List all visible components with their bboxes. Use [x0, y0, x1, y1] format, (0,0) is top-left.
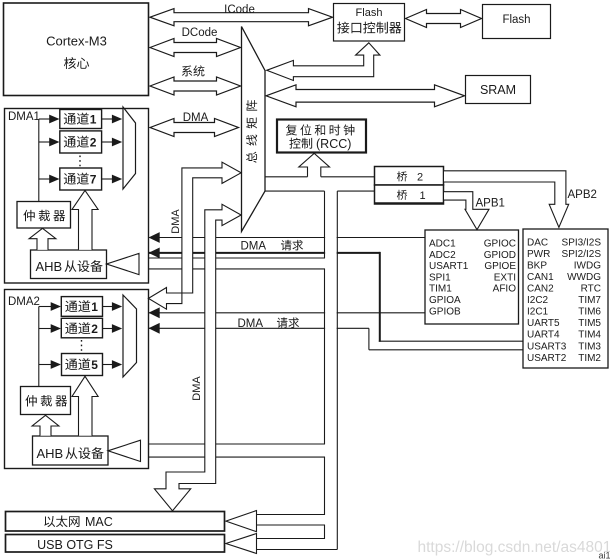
- svg-text:7: 7: [90, 173, 97, 187]
- svg-text:ICode: ICode: [224, 4, 255, 16]
- svg-text:SRAM: SRAM: [480, 83, 516, 97]
- label DMA vertical 1: [170, 209, 182, 234]
- svg-text:TIM6: TIM6: [578, 307, 601, 318]
- svg-text:DCode: DCode: [182, 27, 218, 39]
- DMA2 channel 2 box: [61, 318, 102, 338]
- svg-text:ADC2: ADC2: [429, 250, 456, 261]
- DMA2 controller box: [5, 290, 149, 469]
- svg-text:1: 1: [90, 113, 97, 127]
- svg-text:https://blog.csdn.net/as48013: https://blog.csdn.net/as48013: [418, 539, 610, 556]
- svg-text:DMA: DMA: [238, 318, 264, 330]
- DMA2 channel 5 box: [62, 354, 103, 376]
- label DMA2 arbiter: [25, 395, 67, 407]
- DMA1 channel 2 box: [60, 131, 102, 153]
- APB1 peripherals box: [523, 229, 608, 368]
- svg-text:TIM2: TIM2: [578, 353, 601, 364]
- svg-text:BKP: BKP: [527, 260, 547, 271]
- bent double arrow: bus matrix to Flash interface controller: [267, 43, 380, 81]
- svg-text:2: 2: [417, 172, 423, 184]
- svg-text:2: 2: [90, 136, 97, 150]
- wire AHB white-channel branch to DMA2 AHB slave: [130, 445, 325, 457]
- svg-text:SPI3/I2S: SPI3/I2S: [562, 237, 602, 248]
- label Ethernet MAC: [44, 516, 79, 528]
- DMA1 feeder arrow: [39, 141, 51, 143]
- wire AHB white-channel branch to Ethernet MAC: [257, 515, 326, 524]
- DMA2 mux trapezoid: [123, 295, 137, 377]
- DMA2 AHB slave box: [33, 436, 109, 465]
- svg-text:UART5: UART5: [527, 318, 560, 329]
- wire DMA request line 3 (APB2 periph to DMA2): [149, 312, 426, 314]
- DMA request arrowhead 2: [149, 248, 160, 259]
- label system bus: [182, 65, 205, 76]
- svg-text:DMA: DMA: [170, 209, 182, 234]
- svg-text:(RCC): (RCC): [316, 137, 351, 151]
- labels DMA1 channels: [64, 113, 89, 125]
- svg-text:I2C1: I2C1: [527, 307, 549, 318]
- svg-text:AHB: AHB: [37, 446, 64, 461]
- DMA2 channel dots: [81, 340, 83, 351]
- svg-text:DMA: DMA: [183, 112, 209, 124]
- svg-text:ADC1: ADC1: [429, 239, 456, 250]
- wire AHB white channel: bus matrix to Ethernet DMA (bent arrow, DMA labelled): [154, 204, 241, 511]
- arrowhead into DMA1 AHB slave: [107, 253, 140, 274]
- svg-text:TIM4: TIM4: [578, 330, 601, 341]
- DMA bus double arrow: [150, 119, 239, 137]
- svg-text:I2C2: I2C2: [527, 295, 549, 306]
- DMA2 feeder arrow: [39, 364, 52, 366]
- label RCC line 1: [286, 124, 355, 135]
- DMA2 channel 1 box: [61, 297, 102, 317]
- label DMA1 arbiter: [23, 210, 65, 222]
- block arrow into RCC: [299, 153, 330, 177]
- svg-text:IWDG: IWDG: [574, 260, 601, 271]
- svg-text:UART4: UART4: [527, 330, 560, 341]
- DMA1 channel to mux arrow: [102, 178, 114, 180]
- DMA2 up arrow: AHB slave to arbiter: [32, 415, 59, 436]
- svg-text:AFIO: AFIO: [493, 284, 517, 295]
- DMA1 channel dots: [79, 156, 81, 167]
- DMA2 arbiter box: [21, 387, 71, 415]
- svg-text:RTC: RTC: [581, 284, 601, 295]
- bridge 1 box: [375, 185, 444, 204]
- DMA1 arbiter box: [17, 202, 71, 229]
- USB OTG FS box: [6, 535, 225, 553]
- svg-text:TIM7: TIM7: [578, 295, 601, 306]
- Flash interface controller box: [334, 4, 405, 42]
- svg-text:APB1: APB1: [476, 198, 505, 210]
- label bridge 1: [397, 190, 407, 200]
- double arrow: Flash controller to Flash: [406, 10, 482, 28]
- svg-text:CAN2: CAN2: [527, 284, 554, 295]
- DMA1 channel 7 box: [60, 168, 102, 190]
- label bridge 2: [397, 171, 407, 181]
- SRAM box: [466, 76, 531, 104]
- svg-text:MAC: MAC: [85, 515, 113, 529]
- wire DMA request line 1 (APB2 periph to DMA1): [149, 237, 426, 239]
- DMA2 up arrow: AHB slave to channel 5: [72, 376, 98, 436]
- DMA request arrowhead 1: [149, 232, 160, 243]
- svg-text:SPI1: SPI1: [429, 272, 451, 283]
- bridge 2 box: [375, 167, 444, 186]
- wire AHB white-channel branch to DMA1 AHB slave: [128, 259, 325, 269]
- wire AHB white-channel vertical trunk (bus matrix to AHB slaves): [325, 192, 337, 549]
- Flash memory box: [483, 5, 551, 39]
- DMA1 feeder arrow: [39, 178, 51, 180]
- DMA1 arbiter feeder line: [38, 119, 40, 202]
- svg-text:GPIOC: GPIOC: [484, 239, 516, 250]
- svg-text:SPI2/I2S: SPI2/I2S: [562, 249, 602, 260]
- DMA1 feeder arrow: [39, 118, 51, 120]
- svg-text:GPIOB: GPIOB: [429, 306, 461, 317]
- wire AHB white-channel branch to USB OTG FS: [257, 539, 337, 549]
- svg-text:Flash: Flash: [356, 7, 383, 19]
- svg-text:USART1: USART1: [429, 261, 469, 272]
- svg-text:GPIOE: GPIOE: [484, 261, 516, 272]
- svg-text:TIM5: TIM5: [578, 318, 601, 329]
- svg-text:1: 1: [91, 300, 98, 314]
- arrowhead into Ethernet MAC: [226, 511, 257, 532]
- APB2 peripherals box: [425, 230, 519, 324]
- DMA1 mux trapezoid: [123, 107, 136, 189]
- svg-text:DAC: DAC: [527, 237, 548, 248]
- DMA request arrowhead 4: [149, 323, 160, 334]
- DMA1 up arrow: AHB slave to arbiter: [29, 228, 56, 250]
- svg-text:USB OTG FS: USB OTG FS: [37, 538, 113, 552]
- DCode double arrow: [150, 39, 241, 57]
- svg-text:DMA1: DMA1: [8, 111, 40, 123]
- wire DMA request line 4 (APB1 periph to DMA2): [149, 327, 369, 329]
- svg-text:5: 5: [91, 358, 98, 372]
- DMA1 channel to mux arrow: [102, 118, 114, 120]
- svg-text:GPIOA: GPIOA: [429, 295, 461, 306]
- ICode double arrow: [150, 9, 333, 26]
- label RCC line 2: [289, 138, 312, 149]
- svg-text:2: 2: [91, 322, 98, 336]
- svg-text:PWR: PWR: [527, 249, 550, 260]
- label bus matrix (rotated): [246, 100, 257, 163]
- bridge 1 bottom thick edge: [375, 202, 444, 204]
- DMA1 channel 1 box: [60, 110, 102, 129]
- svg-text:DMA2: DMA2: [8, 296, 40, 308]
- APB2 bus path with down arrow: [444, 171, 569, 228]
- bus matrix polygon: [242, 27, 266, 232]
- arrowhead into USB OTG FS: [226, 534, 257, 554]
- DMA2 channel to mux arrow: [103, 364, 114, 366]
- svg-text:WWDG: WWDG: [567, 272, 601, 283]
- wire AHB bus: matrix to bridge1: [265, 190, 325, 192]
- Cortex-M3 core box: [4, 3, 149, 96]
- svg-text:DMA: DMA: [191, 376, 203, 401]
- DMA2 feeder arrow: [39, 328, 52, 330]
- RCC reset and clock control box: [277, 120, 366, 153]
- DMA1 controller box: [5, 109, 149, 284]
- DMA2 arbiter feeder line: [38, 307, 40, 387]
- svg-text:AHB: AHB: [36, 259, 63, 274]
- svg-text:Cortex-M3: Cortex-M3: [46, 34, 107, 49]
- DMA2 channel to mux arrow: [103, 306, 114, 308]
- svg-text:TIM3: TIM3: [578, 341, 601, 352]
- APB1 bus path with down arrow: [444, 192, 489, 230]
- DMA2 channel to mux arrow: [103, 328, 114, 330]
- svg-text:USART2: USART2: [527, 353, 567, 364]
- DMA request arrowhead 3: [149, 307, 160, 318]
- double arrow: bus matrix to SRAM: [266, 85, 465, 107]
- svg-text:GPIOD: GPIOD: [484, 250, 516, 261]
- wire DMA request line 2 (APB1 periph to DMA1): [149, 252, 380, 254]
- DMA2 feeder arrow: [39, 306, 52, 308]
- DMA1 channel to mux arrow: [102, 141, 114, 143]
- DMA1 AHB slave box: [31, 250, 107, 279]
- svg-text:Flash: Flash: [502, 14, 530, 26]
- svg-text:TIM1: TIM1: [429, 284, 452, 295]
- svg-text:EXTI: EXTI: [494, 272, 516, 283]
- label DMA vertical 2: [191, 376, 203, 401]
- system bus double arrow: [150, 77, 241, 95]
- Ethernet MAC box: [6, 512, 225, 532]
- svg-text:USART3: USART3: [527, 341, 567, 352]
- svg-text:1: 1: [420, 190, 426, 202]
- svg-text:ai1: ai1: [599, 551, 610, 559]
- DMA1 up arrow: AHB slave to channel 7: [72, 191, 98, 250]
- wire AHB bus: matrix to bridge2 (with RCC tap): [265, 176, 308, 178]
- labels DMA2 channels: [65, 300, 90, 312]
- svg-text:APB2: APB2: [568, 189, 597, 201]
- svg-text:CAN1: CAN1: [527, 272, 554, 283]
- svg-text:DMA: DMA: [241, 241, 267, 253]
- arrowhead into DMA2 AHB slave: [108, 440, 141, 461]
- wire AHB white channel: bus matrix to DMA2 master port (bent double arrow): [148, 162, 241, 309]
